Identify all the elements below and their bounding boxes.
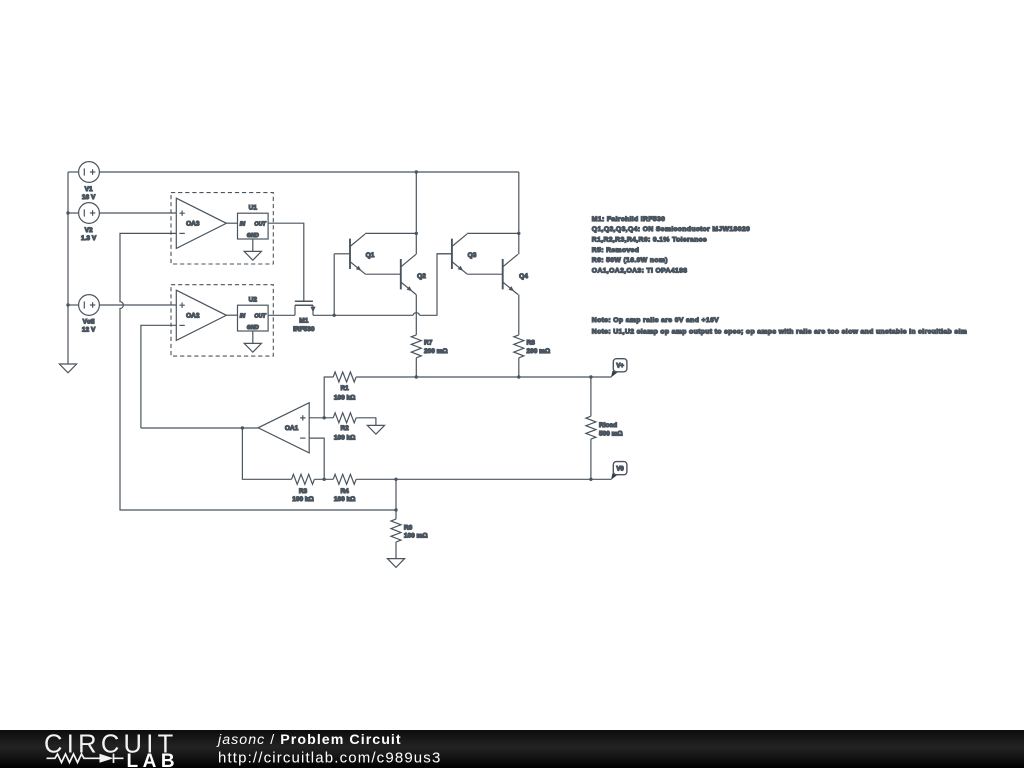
wire OA2 minus net	[141, 325, 176, 428]
flag V+	[611, 371, 618, 378]
svg-text:IN: IN	[240, 313, 245, 319]
wire R8 bottom	[518, 358, 520, 377]
left rail wire	[67, 172, 69, 364]
svg-text:200 mΩ: 200 mΩ	[424, 348, 448, 355]
svg-text:http://circuitlab.com/c989us3: http://circuitlab.com/c989us3	[218, 750, 441, 767]
wire Q3 collector	[467, 232, 519, 234]
transistor Q3	[437, 253, 452, 255]
svg-text:M1: M1	[299, 318, 308, 325]
wire Q2 emitter down to R7	[415, 295, 417, 335]
ground R6	[387, 559, 404, 568]
wire Q3 emitter to Q4 base	[467, 273, 502, 275]
resistor R6	[391, 519, 401, 542]
wire U2 OUT to M1 drain	[268, 314, 295, 316]
wire Vctl to OA2+	[99, 304, 176, 306]
resistor R1zig	[333, 372, 356, 382]
wire OA3 minus net with hop over Vctl wire	[120, 233, 396, 510]
svg-text:100 kΩ: 100 kΩ	[334, 395, 355, 402]
op-amp OA1 pointing left	[258, 403, 309, 453]
dashed box U2/OA2	[171, 285, 273, 356]
svg-text:GND: GND	[247, 233, 259, 239]
node R3/R4	[323, 478, 326, 481]
voltage source V1	[79, 162, 100, 183]
node R6 top	[394, 508, 397, 511]
svg-text:V0: V0	[616, 467, 624, 473]
svg-text:Vctl: Vctl	[83, 318, 95, 325]
svg-text:R1: R1	[340, 385, 349, 392]
resistor Rload	[590, 377, 592, 416]
resistor R2zig	[333, 413, 356, 423]
svg-text:Q2: Q2	[417, 273, 426, 280]
wire OA1 plus input	[309, 417, 333, 419]
svg-text:500 mΩ: 500 mΩ	[599, 431, 623, 438]
clamp U2	[238, 305, 269, 331]
svg-text:Q4: Q4	[519, 273, 528, 280]
svg-text:jasonc / Problem Circuit: jasonc / Problem Circuit	[216, 732, 402, 748]
svg-text:OA3: OA3	[186, 221, 200, 228]
node OA1 output	[241, 426, 244, 429]
voltage source Vctl	[79, 295, 100, 316]
wire Q1 collector	[365, 232, 416, 234]
svg-text:R6: R6	[404, 524, 413, 531]
svg-text:100 kΩ: 100 kΩ	[334, 496, 355, 503]
svg-text:OUT: OUT	[254, 221, 266, 227]
svg-text:IN: IN	[240, 221, 245, 227]
svg-text:R3: R3	[299, 488, 308, 495]
svg-text:M1: Fairchild IRF530: M1: Fairchild IRF530	[592, 216, 666, 223]
svg-text:Note: U1,U2 clamp op amp outpu: Note: U1,U2 clamp op amp output to spec;…	[592, 329, 967, 336]
resistor R1	[324, 377, 333, 418]
wire OA3 out to U1	[226, 222, 237, 224]
wire OA2 out to U2	[226, 314, 237, 316]
resistor R3zig	[292, 474, 315, 484]
svg-text:100 kΩ: 100 kΩ	[334, 435, 355, 442]
wire R6 bottom	[395, 542, 397, 559]
svg-text:V1: V1	[85, 186, 93, 193]
wire V2 stub left	[68, 212, 79, 214]
transistor M1 MOSFET	[295, 300, 313, 302]
wire R3-R4	[314, 478, 333, 480]
node top rail junction	[415, 170, 418, 173]
transistor Q1	[349, 239, 351, 269]
wire OA1 output down to R3	[242, 428, 291, 479]
dashed box U1/OA3	[171, 193, 273, 264]
hop arc	[413, 313, 420, 316]
wire Q3Q4 collector rail	[518, 172, 520, 254]
svg-text:16 V: 16 V	[82, 194, 96, 201]
wire V1 stub left	[68, 171, 79, 173]
svg-text:OA2: OA2	[186, 313, 200, 320]
transistor Q4	[502, 259, 504, 289]
wire U2 GND pin	[252, 331, 254, 343]
svg-text:R7: R7	[424, 340, 433, 347]
svg-text:GND: GND	[247, 325, 259, 331]
svg-text:LAB: LAB	[127, 751, 180, 768]
svg-text:U2: U2	[249, 297, 258, 304]
wire R6 riser	[395, 479, 397, 519]
wire U1 OUT to M1 gate	[268, 223, 304, 301]
wire R7 bottom	[415, 358, 417, 377]
op-amp OA3	[176, 198, 226, 248]
voltage source V2	[79, 203, 100, 224]
node M1 source junction	[333, 314, 336, 317]
svg-text:Q1: Q1	[366, 252, 375, 259]
svg-text:Note: Op amp rails are 0V and: Note: Op amp rails are 0V and +16V	[592, 317, 719, 324]
svg-text:R5: Removed: R5: Removed	[592, 247, 640, 254]
svg-text:R8: R8	[527, 340, 536, 347]
wire V2 to OA3+	[99, 212, 176, 214]
ground U1	[244, 251, 261, 260]
svg-text:R4: R4	[340, 488, 349, 495]
clamp U1	[238, 213, 269, 239]
wire M1 source to Q1 base riser and Q3, hop over R7 column	[313, 254, 452, 315]
svg-text:U1: U1	[249, 205, 258, 212]
svg-text:OUT: OUT	[254, 313, 266, 319]
wire U1 GND pin	[252, 239, 254, 251]
flag V0	[611, 473, 618, 480]
node Q3Q4 collector	[517, 232, 520, 235]
svg-text:V2: V2	[85, 227, 93, 234]
wire top rail	[99, 171, 518, 173]
svg-text:100 kΩ: 100 kΩ	[292, 496, 313, 503]
svg-text:V+: V+	[616, 364, 624, 370]
svg-text:OA1,OA2,OA3: TI OPA4188: OA1,OA2,OA3: TI OPA4188	[592, 268, 688, 275]
wire R2 to ground	[356, 418, 376, 426]
wire OA1 minus input	[309, 438, 324, 479]
svg-text:12 V: 12 V	[82, 326, 96, 333]
wire V0 row	[356, 478, 611, 480]
node Q1Q2 collector	[415, 232, 418, 235]
wire Vctl stub left	[68, 304, 79, 306]
svg-text:R2: R2	[340, 425, 349, 432]
op-amp OA2	[176, 290, 226, 340]
wire V+ row	[356, 376, 611, 378]
ground U2	[244, 343, 261, 352]
wire Q1 emitter to Q2 base	[365, 273, 400, 275]
svg-text:Q1,Q2,Q3,Q4: ON Semiconductor: Q1,Q2,Q3,Q4: ON Semiconductor MJW18020	[592, 226, 750, 233]
wire OA1 output to OA2 minus	[141, 427, 258, 429]
svg-text:R1,R2,R3,R4,R6: 0.1% Tolerance: R1,R2,R3,R4,R6: 0.1% Tolerance	[592, 237, 707, 244]
wire Q4 emitter down to R8	[518, 295, 520, 335]
wire Q1 base	[334, 253, 350, 255]
svg-text:IRF530: IRF530	[293, 326, 315, 333]
svg-text:100 mΩ: 100 mΩ	[404, 533, 428, 540]
wire Q1Q2 collector rail	[415, 172, 417, 254]
svg-text:Rload: Rload	[599, 422, 617, 429]
ground R2	[367, 425, 384, 434]
transistor Q2	[400, 259, 402, 289]
wire Q1 base riser	[333, 254, 335, 315]
resistor R4zig	[333, 474, 356, 484]
ground left rail	[59, 364, 76, 373]
svg-text:Q3: Q3	[468, 252, 477, 259]
svg-text:R6: 50W (16.9W nom): R6: 50W (16.9W nom)	[592, 257, 668, 264]
svg-text:1.3 V: 1.3 V	[81, 235, 97, 242]
svg-text:OA1: OA1	[285, 425, 299, 432]
logo resistor-diode glyph	[47, 754, 124, 763]
svg-text:200 mΩ: 200 mΩ	[527, 348, 551, 355]
